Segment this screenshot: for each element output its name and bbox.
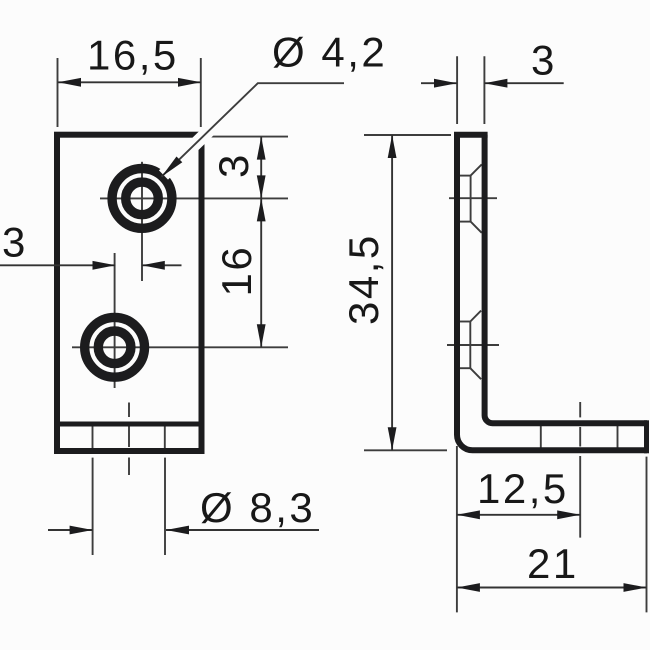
dim 8.3 <box>48 529 93 531</box>
lower hole: top edge <box>460 321 470 323</box>
dim 16.5 <box>58 81 202 83</box>
arrow 3 left b <box>142 261 165 270</box>
bend hole centerline dash above strip <box>128 403 130 418</box>
arrow 8.3 right <box>166 526 189 535</box>
strip hole edge tick left <box>92 427 94 449</box>
side view leg end cap <box>644 420 649 453</box>
ext line 3 left <box>456 56 458 124</box>
leg hole tick right <box>617 426 619 448</box>
leader line <box>162 83 345 177</box>
centerline horizontal bottom hole / ext <box>72 346 288 348</box>
ext line 16.5 right <box>200 58 202 127</box>
arrow chain top up <box>257 137 266 160</box>
lower hole: bottom chamfer <box>470 368 481 379</box>
ext line 8.3 right <box>164 458 166 555</box>
svg-text:34,5: 34,5 <box>340 233 387 325</box>
centerline vertical bottom hole <box>114 253 116 388</box>
ext 34.5 bottom <box>364 449 447 451</box>
svg-text:Ø 8,3: Ø 8,3 <box>200 484 315 531</box>
leader casing <box>164 81 261 175</box>
arrow 3side right <box>484 79 507 88</box>
arrow chain mid up <box>257 198 266 221</box>
leg hole tick left <box>540 426 542 448</box>
dim 12.5 <box>457 514 580 516</box>
lower hole centerline <box>447 344 499 346</box>
arrow 3 left a <box>93 261 116 270</box>
arrow 34.5 top <box>388 135 397 158</box>
lower hole: vertical <box>469 322 471 369</box>
arrow 3side left <box>434 79 457 88</box>
arrow 21 left <box>457 583 480 592</box>
ext line 3 right <box>483 56 485 124</box>
centerline vertical top hole <box>141 162 143 281</box>
arrow 12.5 right <box>557 510 580 519</box>
bend line <box>54 422 205 427</box>
svg-text:16,5: 16,5 <box>87 32 179 79</box>
arrow 21 right <box>624 583 647 592</box>
leg hole centerline dash above <box>579 402 581 417</box>
svg-text:16: 16 <box>213 245 260 297</box>
strip hole edge tick right <box>164 427 166 449</box>
upper hole: vertical <box>470 176 472 222</box>
ext line chain top <box>203 136 288 138</box>
arrow 16.5 left <box>58 78 81 87</box>
arrow 12.5 left <box>457 510 480 519</box>
leg hole centerline below <box>579 456 581 538</box>
upper hole: top chamfer <box>471 164 482 175</box>
ext line 8.3 left <box>92 458 94 555</box>
side view outline: outer contour <box>457 135 647 451</box>
svg-text:Ø 4,2: Ø 4,2 <box>272 29 387 76</box>
upper hole: bottom chamfer <box>471 222 482 233</box>
svg-text:3: 3 <box>531 37 557 84</box>
bottom hole outer circle <box>85 317 145 377</box>
lower hole: top chamfer <box>470 311 481 322</box>
svg-text:3: 3 <box>210 152 257 178</box>
dim chain 3/16 vertical <box>260 137 262 348</box>
ext 21 right <box>646 457 648 613</box>
arrow chain bottom down <box>257 324 266 347</box>
top hole outer circle <box>112 169 172 229</box>
ext line 16.5 left <box>57 58 59 127</box>
upper hole: bottom edge <box>460 221 471 223</box>
dim 21 <box>457 587 647 589</box>
lower hole: bottom edge <box>460 367 470 369</box>
bend hole centerline below plate <box>128 458 130 476</box>
svg-text:12,5: 12,5 <box>477 465 569 512</box>
dim 3 side view <box>421 82 457 84</box>
side view outline: inner contour <box>485 135 647 424</box>
dim 3 left <box>0 264 116 266</box>
arrow 34.5 bottom <box>388 427 397 450</box>
arrow leader <box>162 157 183 177</box>
ext 34.5 top <box>364 134 451 136</box>
upper hole: top edge <box>460 175 471 177</box>
ext 12.5/21 left <box>456 446 458 612</box>
leg hole centerline through leg <box>579 427 581 447</box>
side view top edge <box>454 132 488 138</box>
arrow 16.5 right <box>178 78 201 87</box>
top hole inner circle <box>126 182 159 215</box>
dim 34.5 <box>391 135 393 450</box>
arrow 8.3 left <box>70 526 93 535</box>
plate outline <box>57 135 202 451</box>
arrow chain mid down <box>257 175 266 198</box>
centerline horizontal top hole / ext of 3-16 chain <box>100 197 288 199</box>
bend hole centerline through strip <box>128 427 130 448</box>
svg-text:21: 21 <box>527 540 579 587</box>
bottom hole inner circle <box>98 331 131 364</box>
svg-text:3: 3 <box>2 219 28 266</box>
upper hole centerline <box>449 197 497 199</box>
